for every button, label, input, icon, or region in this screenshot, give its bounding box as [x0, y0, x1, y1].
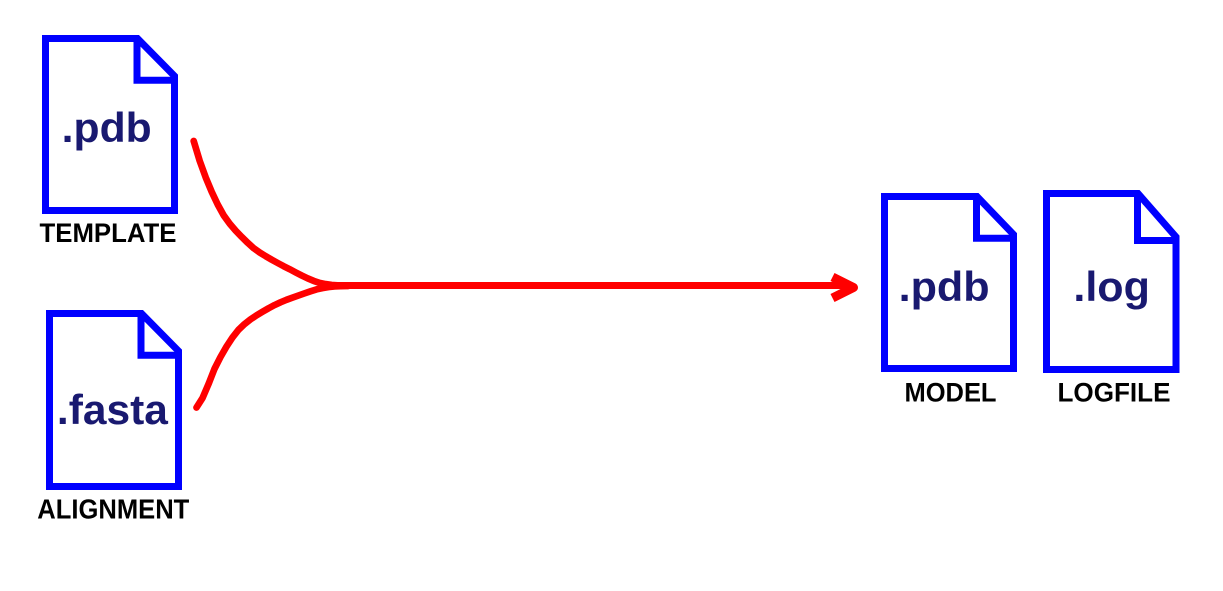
- svg-text:.pdb: .pdb: [62, 104, 152, 151]
- svg-text:LOGFILE: LOGFILE: [1058, 376, 1171, 407]
- svg-text:ALIGNMENT: ALIGNMENT: [37, 493, 189, 524]
- svg-text:TEMPLATE: TEMPLATE: [40, 218, 177, 248]
- svg-text:.pdb: .pdb: [899, 263, 990, 310]
- svg-text:.fasta: .fasta: [57, 386, 169, 433]
- svg-text:MODEL: MODEL: [905, 376, 997, 407]
- svg-text:.log: .log: [1073, 263, 1150, 310]
